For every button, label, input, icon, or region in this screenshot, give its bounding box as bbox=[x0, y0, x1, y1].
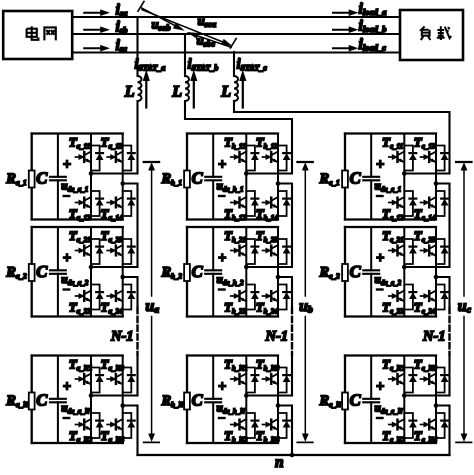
phase voltage arrow u_a bbox=[144, 162, 159, 442]
dc voltage label u_dc_a_N bbox=[61, 379, 91, 418]
svg-text:C: C bbox=[36, 262, 48, 281]
wire: bottom neutral bus bbox=[138, 454, 450, 456]
H-bridge left leg wire module a1 bbox=[90, 134, 92, 220]
node: AC terminal 1 module cN bbox=[402, 393, 407, 398]
transistor T_c_N2 bbox=[382, 413, 416, 444]
H-bridge right leg wire module b1 bbox=[277, 134, 279, 220]
load current arrow i_load_b bbox=[333, 27, 358, 33]
module c1 frame / DC bus bbox=[345, 134, 436, 220]
wire: terminal 2 to chain module b1 bbox=[278, 183, 292, 185]
wire: phase a inductor to chain bbox=[136, 101, 138, 174]
node: AC terminal 2 module c2 bbox=[434, 275, 439, 280]
STATCOM current arrow i_STAT_c bbox=[240, 71, 246, 108]
wire: phase b inductor to chain bbox=[185, 101, 292, 174]
svg-text:N-1: N-1 bbox=[110, 329, 134, 345]
dc voltage label u_dc_a_1 bbox=[61, 157, 88, 196]
tick at phase a tap bbox=[138, 1, 144, 11]
resistor R_a_1 bbox=[5, 171, 34, 188]
load current arrow i_load_a bbox=[333, 10, 358, 16]
transistor T_c_N4 bbox=[414, 413, 448, 444]
label u_sca bbox=[198, 13, 217, 29]
wire: terminal 2 to chain module a2 bbox=[123, 276, 138, 278]
H-bridge right leg wire module b2 bbox=[277, 227, 279, 317]
resistor R_c_2 bbox=[319, 264, 348, 281]
wire: terminal 1 to chain module c2 bbox=[404, 266, 449, 268]
wire: phase b line from grid to load bbox=[72, 33, 400, 35]
transistor T_c_N3 bbox=[414, 357, 448, 393]
STATCOM current arrow i_STAT_b bbox=[191, 71, 197, 108]
node: AC terminal 2 module aN bbox=[120, 403, 125, 408]
wire: chain to module N phase c bbox=[448, 356, 450, 396]
wire: terminal 2 to chain module b2 bbox=[278, 276, 292, 278]
svg-text:L: L bbox=[220, 84, 231, 101]
voltage arrow u_sbc bbox=[187, 32, 231, 47]
transistor T_b_N4 bbox=[256, 413, 290, 444]
label i_STAT_b bbox=[188, 57, 219, 73]
label i_sb bbox=[116, 19, 128, 36]
module aN frame / DC bus bbox=[32, 356, 123, 444]
dc voltage label u_dc_c_1 bbox=[375, 157, 402, 196]
phase voltage arrow u_b bbox=[297, 162, 312, 442]
transistor T_b_N3 bbox=[256, 357, 290, 393]
transistor T_c_13 bbox=[414, 135, 448, 171]
wire: terminal 1 to chain module bN bbox=[246, 395, 292, 397]
wire: terminal 1 to chain module a2 bbox=[91, 266, 138, 268]
svg-text:C: C bbox=[192, 391, 204, 410]
wire: terminal 1 to chain module b1 bbox=[246, 173, 292, 175]
node: AC terminal 1 module b2 bbox=[244, 265, 249, 270]
svg-text:C: C bbox=[350, 391, 362, 410]
label i_load_a bbox=[359, 1, 388, 18]
wire: phase a line from grid to load bbox=[72, 16, 400, 18]
transistor T_c_21 bbox=[382, 228, 416, 264]
node: AC terminal 2 module a2 bbox=[120, 275, 125, 280]
transistor T_a_13 bbox=[101, 135, 135, 171]
capacitor C module c1 bbox=[350, 134, 380, 220]
H-bridge right leg wire module aN bbox=[122, 356, 124, 444]
node: AC terminal 1 module bN bbox=[244, 393, 249, 398]
H-bridge left leg wire module bN bbox=[245, 356, 247, 444]
dc voltage label u_dc_b_N bbox=[217, 379, 247, 418]
H-bridge left leg wire module cN bbox=[403, 356, 405, 444]
voltage arrow u_sab bbox=[140, 7, 184, 30]
svg-text:C: C bbox=[350, 262, 362, 281]
wire: phase c line from grid to load bbox=[72, 51, 400, 53]
H-bridge right leg wire module c2 bbox=[435, 227, 437, 317]
H-bridge right leg wire module a2 bbox=[122, 227, 124, 317]
transistor T_b_N1 bbox=[224, 357, 258, 393]
transistor T_c_22 bbox=[382, 285, 416, 316]
wire: terminal 1 to chain module cN bbox=[404, 395, 449, 397]
transistor T_c_11 bbox=[382, 135, 416, 171]
dc voltage label u_dc_c_N bbox=[375, 379, 404, 418]
node n junction bbox=[290, 453, 295, 458]
H-bridge left leg wire module b2 bbox=[245, 227, 247, 317]
node: AC terminal 2 module a1 bbox=[120, 181, 125, 186]
node: AC terminal 1 module c2 bbox=[402, 265, 407, 270]
node: AC terminal 1 module a1 bbox=[89, 171, 94, 176]
node: AC terminal 2 module b1 bbox=[276, 181, 281, 186]
H-bridge left leg wire module aN bbox=[90, 356, 92, 444]
resistor R_a_2 bbox=[5, 264, 34, 281]
wire: chain to module N phase a bbox=[136, 356, 138, 396]
transistor T_c_14 bbox=[414, 191, 448, 222]
svg-text:+: + bbox=[376, 379, 384, 395]
resistor R_b_1 bbox=[161, 171, 190, 188]
STATCOM current arrow i_STAT_a bbox=[143, 71, 149, 108]
label u_b bbox=[299, 298, 313, 316]
wire: terminal 1 to chain module aN bbox=[91, 395, 138, 397]
transistor T_a_14 bbox=[101, 191, 135, 222]
transistor T_a_21 bbox=[69, 228, 103, 264]
label u_c bbox=[458, 298, 472, 316]
wire: chain module2 down phase b bbox=[291, 277, 293, 306]
wire: chain module1-module2 phase c bbox=[448, 185, 450, 268]
label i_load_c bbox=[359, 36, 387, 53]
transistor T_a_N1 bbox=[69, 357, 103, 393]
wire: terminal 2 to chain module bN bbox=[278, 405, 292, 407]
transistor T_b_11 bbox=[224, 135, 258, 171]
transistor T_b_21 bbox=[224, 228, 258, 264]
node: AC terminal 2 module b2 bbox=[276, 275, 281, 280]
dc voltage label u_dc_a_2 bbox=[61, 251, 89, 290]
dc voltage label u_dc_c_2 bbox=[375, 251, 402, 290]
load box 负载 bbox=[400, 10, 463, 60]
phase voltage arrow u_c bbox=[456, 162, 471, 442]
label i_load_b bbox=[359, 18, 387, 35]
wire: terminal 2 to chain module a1 bbox=[123, 183, 138, 185]
transistor T_b_14 bbox=[256, 191, 290, 222]
wire: phase b drop from tap bbox=[184, 34, 186, 76]
wire: dashed chain continuation phase b bbox=[291, 308, 293, 355]
wire: chain module2 down phase c bbox=[448, 277, 450, 306]
label u_sab bbox=[152, 17, 171, 33]
transistor T_b_23 bbox=[256, 228, 290, 264]
wire: terminal 1 to chain module a1 bbox=[91, 173, 138, 175]
wire: terminal 1 to chain module c1 bbox=[404, 173, 449, 175]
label i_sc bbox=[116, 37, 128, 54]
wire: chain module N to bottom bus phase a bbox=[136, 406, 138, 456]
resistor R_b_2 bbox=[161, 264, 190, 281]
svg-text:+: + bbox=[63, 157, 71, 173]
wire: chain module2 down phase a bbox=[136, 277, 138, 306]
H-bridge right leg wire module c1 bbox=[435, 134, 437, 220]
module a2 frame / DC bus bbox=[32, 227, 123, 317]
wire: dashed chain continuation phase a bbox=[136, 308, 138, 355]
transistor T_b_24 bbox=[256, 285, 290, 316]
voltage arrow u_sca bbox=[142, 10, 236, 48]
wire: chain module N to bottom bus phase b bbox=[291, 406, 293, 456]
wire: terminal 2 to chain module aN bbox=[123, 405, 138, 407]
wire: chain module N to bottom bus phase c bbox=[448, 406, 450, 456]
svg-text:C: C bbox=[36, 169, 48, 188]
module b1 frame / DC bus bbox=[187, 134, 278, 220]
transistor T_b_13 bbox=[256, 135, 290, 171]
dc voltage label u_dc_b_2 bbox=[217, 251, 245, 290]
module b2 frame / DC bus bbox=[187, 227, 278, 317]
label i_STAT_c bbox=[237, 57, 268, 73]
transistor T_b_12 bbox=[224, 191, 258, 222]
resistor R_c_1 bbox=[319, 171, 348, 188]
node: AC terminal 1 module b1 bbox=[244, 171, 249, 176]
resistor R_c_N bbox=[319, 393, 348, 410]
capacitor C module b1 bbox=[192, 134, 222, 220]
load current arrow i_load_c bbox=[333, 45, 358, 51]
svg-text:n: n bbox=[275, 454, 284, 470]
capacitor C module cN bbox=[350, 356, 380, 444]
node: AC terminal 2 module c1 bbox=[434, 181, 439, 186]
inductor L phase b bbox=[171, 76, 189, 101]
svg-text:+: + bbox=[63, 251, 71, 267]
module bN frame / DC bus bbox=[187, 356, 278, 444]
inductor L phase c bbox=[220, 76, 238, 101]
transistor T_a_12 bbox=[69, 191, 103, 222]
H-bridge left leg wire module c1 bbox=[403, 134, 405, 220]
capacitor C module bN bbox=[192, 356, 222, 444]
svg-text:+: + bbox=[376, 157, 384, 173]
wire: chain to module N phase b bbox=[291, 356, 293, 396]
node: AC terminal 1 module a2 bbox=[89, 265, 94, 270]
svg-text:+: + bbox=[376, 251, 384, 267]
wire: terminal 2 to chain module c1 bbox=[436, 183, 450, 185]
transistor T_a_N4 bbox=[101, 413, 135, 444]
wire: terminal 1 to chain module b2 bbox=[246, 266, 292, 268]
resistor R_a_N bbox=[5, 393, 34, 410]
H-bridge left leg wire module c2 bbox=[403, 227, 405, 317]
transistor T_a_N2 bbox=[69, 413, 103, 444]
transistor T_a_11 bbox=[69, 135, 103, 171]
node: AC terminal 2 module bN bbox=[276, 403, 281, 408]
node: AC terminal 1 module aN bbox=[89, 393, 94, 398]
wire: dashed chain continuation phase c bbox=[448, 308, 450, 355]
H-bridge right leg wire module a1 bbox=[122, 134, 124, 220]
capacitor C module a2 bbox=[36, 227, 66, 317]
svg-text:C: C bbox=[350, 169, 362, 188]
transistor T_c_N1 bbox=[382, 357, 416, 393]
label u_sbc bbox=[197, 33, 216, 49]
wire: terminal 2 to chain module c2 bbox=[436, 276, 450, 278]
capacitor C module c2 bbox=[350, 227, 380, 317]
dc voltage label u_dc_b_1 bbox=[217, 157, 244, 196]
wire: terminal 2 to chain module cN bbox=[436, 405, 450, 407]
resistor R_b_N bbox=[161, 393, 190, 410]
transistor T_b_22 bbox=[224, 285, 258, 316]
svg-text:N-1: N-1 bbox=[422, 329, 446, 345]
svg-text:C: C bbox=[192, 262, 204, 281]
svg-text:C: C bbox=[36, 391, 48, 410]
wire: chain module1-module2 phase b bbox=[291, 185, 293, 268]
transistor T_b_N2 bbox=[224, 413, 258, 444]
transistor T_a_24 bbox=[101, 285, 135, 316]
grid source box 电网 bbox=[3, 11, 72, 59]
source current arrow i_sb bbox=[84, 27, 109, 33]
node: AC terminal 1 module c1 bbox=[402, 171, 407, 176]
wire: phase c drop from tap bbox=[233, 52, 235, 76]
wire: phase c inductor to chain bbox=[234, 101, 450, 174]
H-bridge left leg wire module b1 bbox=[245, 134, 247, 220]
capacitor C module a1 bbox=[36, 134, 66, 220]
capacitor C module aN bbox=[36, 356, 66, 444]
svg-text:+: + bbox=[218, 157, 226, 173]
svg-text:+: + bbox=[63, 379, 71, 395]
label u_a bbox=[145, 298, 159, 316]
transistor T_c_12 bbox=[382, 191, 416, 222]
svg-text:L: L bbox=[171, 84, 182, 101]
node: AC terminal 2 module cN bbox=[434, 403, 439, 408]
svg-text:+: + bbox=[218, 379, 226, 395]
label i_sa bbox=[116, 2, 129, 19]
transistor T_a_22 bbox=[69, 285, 103, 316]
wire: phase a drop from tap bbox=[136, 17, 138, 76]
svg-text:L: L bbox=[124, 84, 135, 101]
inductor L phase a bbox=[124, 76, 142, 101]
svg-text:+: + bbox=[218, 251, 226, 267]
svg-text:N-1: N-1 bbox=[265, 329, 289, 345]
svg-text:C: C bbox=[192, 169, 204, 188]
source current arrow i_sc bbox=[84, 45, 109, 51]
module a1 frame / DC bus bbox=[32, 134, 123, 220]
source current arrow i_sa bbox=[84, 10, 109, 16]
label i_STAT_a bbox=[135, 57, 166, 73]
wire: chain module1-module2 phase a bbox=[136, 185, 138, 268]
transistor T_a_N3 bbox=[101, 357, 135, 393]
capacitor C module b2 bbox=[192, 227, 222, 317]
transistor T_a_23 bbox=[101, 228, 135, 264]
H-bridge left leg wire module a2 bbox=[90, 227, 92, 317]
module c2 frame / DC bus bbox=[345, 227, 436, 317]
transistor T_c_23 bbox=[414, 228, 448, 264]
H-bridge right leg wire module cN bbox=[435, 356, 437, 444]
H-bridge right leg wire module bN bbox=[277, 356, 279, 444]
transistor T_c_24 bbox=[414, 285, 448, 316]
module cN frame / DC bus bbox=[345, 356, 436, 444]
